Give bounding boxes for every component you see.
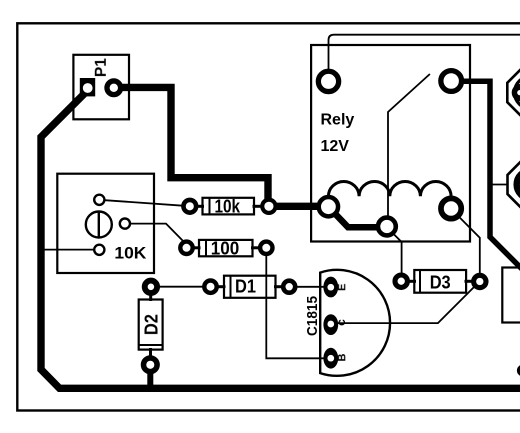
wire: relay coil center pad down to D3 left pad bbox=[388, 228, 402, 282]
wire: pot wiper bottom pad to ground trace bbox=[41, 249, 99, 251]
diode D1 body bbox=[224, 276, 276, 298]
wire: 100 right pad down and right to transistor base pad bbox=[266, 248, 331, 358]
svg-text:P1: P1 bbox=[93, 58, 110, 77]
svg-text:12V: 12V bbox=[321, 138, 350, 155]
svg-text:D2: D2 bbox=[142, 314, 162, 335]
P1 pad 2 (round pad) bbox=[107, 81, 121, 95]
wire: pot right pad to 100 left pad bbox=[125, 224, 187, 245]
svg-text:Rely: Rely bbox=[321, 112, 355, 129]
wire: thick ground trace from P1 pin1 down left side and along bottom bbox=[41, 90, 520, 388]
100 left pad bbox=[180, 242, 192, 254]
diode D1 lead stubs bbox=[216, 285, 226, 288]
potentiometer outline box bbox=[57, 174, 154, 273]
D2 bottom pad bbox=[144, 358, 158, 372]
relay pad top-left bbox=[318, 71, 338, 91]
wire: thick trace relay coil left pad to center pad bbox=[328, 207, 387, 228]
transistor pad e bbox=[323, 277, 338, 298]
screw terminal top (right edge) bbox=[507, 69, 520, 116]
pot right pad bbox=[120, 219, 130, 229]
resistor R2 body 100 bbox=[199, 240, 253, 256]
svg-text:10k: 10k bbox=[215, 196, 241, 216]
diode D2 body bbox=[139, 300, 163, 350]
diode D3 body bbox=[414, 270, 466, 293]
svg-text:C1815: C1815 bbox=[304, 296, 321, 336]
svg-text:c: c bbox=[334, 319, 348, 326]
D3 left pad bbox=[395, 275, 407, 287]
transistor pad c bbox=[323, 314, 338, 335]
relay pad bottom-right bbox=[441, 198, 461, 218]
wire: thick trace relay switch pad to right vertical and diagonal bbox=[451, 81, 520, 271]
wire: D1 right pad to transistor emitter pad bbox=[289, 286, 331, 288]
pot top pad bbox=[94, 195, 104, 205]
10k left pad bbox=[183, 200, 196, 213]
wire: thin net relay coil top-left pad up and right to edge bbox=[329, 35, 520, 81]
D2 bottom pad stub to ground trace bbox=[147, 365, 153, 388]
10k right pad bbox=[262, 200, 275, 213]
svg-text:100: 100 bbox=[211, 237, 240, 258]
wire: transistor collector pad right then diagonal up to D3 right pad bbox=[331, 281, 480, 323]
resistor R1 body 10k bbox=[203, 198, 255, 215]
D3 right pad bbox=[474, 275, 486, 287]
relay pad bottom-center bbox=[378, 218, 396, 236]
wire: node pads left of D1 bbox=[151, 286, 211, 288]
terminal block box (right edge) bbox=[502, 268, 520, 323]
wire: thick trace P1 pin2 to 10k right pad to relay coil pad bbox=[112, 87, 328, 206]
relay pad top-right bbox=[441, 71, 462, 92]
screw terminal bottom (right edge) bbox=[508, 161, 520, 207]
resistor 100 lead stubs bbox=[192, 246, 201, 249]
wire: thin line to lower terminal ring bbox=[490, 184, 520, 186]
connector P1 outline box bbox=[73, 55, 129, 120]
D1 left pad bbox=[204, 281, 216, 293]
relay pad bottom-left bbox=[319, 197, 338, 216]
transistor Q1 body outline (C1815) bbox=[320, 270, 390, 376]
diode D2 lead stubs bbox=[149, 293, 152, 302]
relay outline box bbox=[311, 45, 470, 242]
pot adjuster circle bbox=[86, 212, 112, 238]
transistor pad b bbox=[323, 348, 338, 369]
svg-text:B: B bbox=[336, 353, 348, 361]
svg-text:D1: D1 bbox=[235, 277, 256, 297]
100 right pad bbox=[260, 242, 272, 254]
resistor 10k lead stubs bbox=[195, 205, 204, 208]
relay coil symbol (4 arcs) bbox=[328, 181, 451, 196]
diode D3 lead stubs bbox=[407, 280, 417, 283]
wire: pot top pad to 10k left pad bbox=[99, 200, 190, 206]
svg-text:D3: D3 bbox=[430, 272, 451, 292]
pot bottom pad bbox=[94, 245, 104, 255]
P1 pad 1 (square pad) bbox=[80, 78, 95, 96]
node pad (D2 top) bbox=[145, 281, 157, 293]
svg-text:E: E bbox=[336, 284, 348, 291]
relay switch lever symbol bbox=[388, 74, 430, 227]
wire: relay switch common pad diagonal to D3 right pad bbox=[451, 208, 480, 281]
pad bottom right edge bbox=[517, 365, 520, 377]
D1 right pad bbox=[283, 281, 295, 293]
svg-text:10K: 10K bbox=[114, 244, 147, 263]
